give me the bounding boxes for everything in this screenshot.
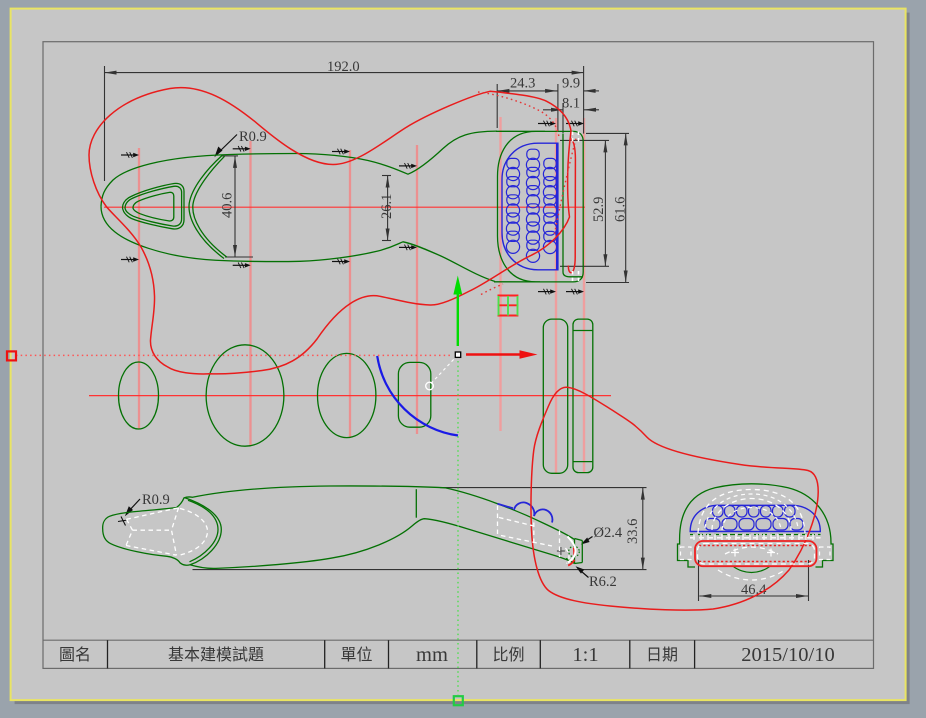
- svg-text:比例: 比例: [492, 646, 524, 664]
- svg-text:33.6: 33.6: [625, 519, 641, 544]
- svg-text:9.9: 9.9: [562, 76, 580, 92]
- svg-text:192.0: 192.0: [327, 59, 360, 75]
- svg-text:8.1: 8.1: [562, 96, 580, 112]
- svg-text:24.3: 24.3: [510, 76, 535, 92]
- svg-text:26.1: 26.1: [379, 194, 395, 219]
- svg-text:52.9: 52.9: [591, 197, 607, 222]
- svg-text:日期: 日期: [646, 646, 678, 664]
- svg-text:R0.9: R0.9: [239, 129, 267, 145]
- svg-text:單位: 單位: [340, 646, 372, 664]
- svg-text:40.6: 40.6: [220, 193, 236, 218]
- svg-text:1:1: 1:1: [572, 644, 598, 666]
- svg-text:Ø2.4: Ø2.4: [594, 525, 623, 541]
- svg-text:圖名: 圖名: [59, 646, 91, 664]
- svg-text:61.6: 61.6: [613, 197, 629, 222]
- svg-text:R0.9: R0.9: [142, 492, 170, 508]
- svg-text:R6.2: R6.2: [589, 574, 617, 590]
- svg-text:基本建模試題: 基本建模試題: [168, 646, 264, 664]
- svg-text:2015/10/10: 2015/10/10: [741, 644, 834, 666]
- svg-text:mm: mm: [416, 644, 448, 666]
